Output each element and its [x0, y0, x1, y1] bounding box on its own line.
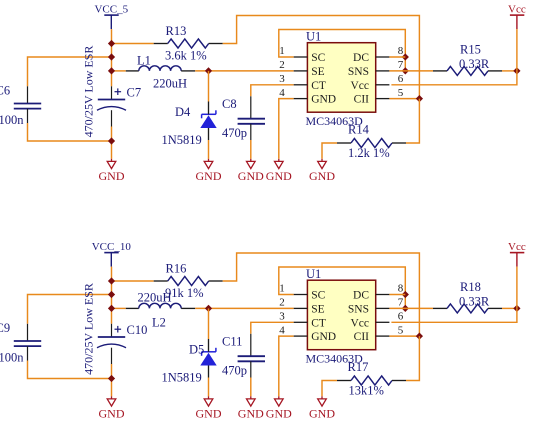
junction pin 5 CII [416, 95, 423, 102]
svg-text:4: 4 [279, 324, 285, 336]
wire VCC_10 vertical to C10 [111, 267, 113, 324]
wire VCC_5 vertical to C7 [111, 29, 113, 86]
junction L1/D4 [205, 67, 212, 74]
wire VCC_10 node to C9 top [28, 295, 112, 324]
junction pin 7 SNS [402, 67, 409, 74]
svg-text:2: 2 [279, 59, 285, 71]
resistor R15 [433, 66, 502, 75]
svg-text:4: 4 [279, 87, 285, 99]
svg-text:C10: C10 [127, 323, 148, 337]
svg-text:1N5819: 1N5819 [162, 133, 202, 147]
power port VCC_5 [94, 4, 128, 30]
wire pin 6 Vcc [391, 308, 517, 322]
resistor R14 [337, 139, 406, 148]
capacitor C7 bottom lead [111, 110, 113, 126]
svg-text:GND: GND [238, 169, 264, 183]
wire R18 right to Vcc [502, 307, 517, 309]
junction L2/D5 [205, 305, 212, 312]
svg-text:GND: GND [266, 407, 292, 421]
capacitor C8 bottom lead [250, 124, 252, 140]
svg-text:GND: GND [196, 407, 222, 421]
svg-text:R14: R14 [348, 123, 370, 137]
junction pin 8 DC [402, 291, 409, 298]
capacitor C10 (electrolytic) [97, 326, 126, 348]
resistor R16 [154, 277, 223, 286]
power port Vcc (output) [508, 4, 526, 30]
svg-text:SC: SC [311, 290, 325, 302]
resistor R18 [433, 304, 502, 313]
svg-text:470/25V Low ESR: 470/25V Low ESR [82, 46, 96, 138]
power port Vcc (output) [508, 241, 526, 267]
ground below D5 [196, 396, 222, 420]
svg-text:L2: L2 [152, 316, 166, 330]
junction R18/Vcc [513, 305, 520, 312]
wire R17 left to GND [322, 381, 337, 397]
wire pin 1 SC loop to pin 8 DC [279, 30, 406, 71]
svg-text:D5: D5 [189, 343, 204, 357]
wire pin 1 SC loop to pin 8 DC [279, 267, 406, 308]
svg-text:13k1%: 13k1% [349, 383, 384, 397]
svg-text:6: 6 [398, 73, 404, 85]
svg-text:6: 6 [398, 311, 404, 323]
svg-text:VCC_10: VCC_10 [92, 241, 132, 253]
svg-text:5: 5 [398, 324, 404, 336]
svg-text:3: 3 [279, 311, 285, 323]
wire R15 right to Vcc [502, 70, 517, 72]
junction GND rail C9/C10 [108, 375, 115, 382]
wire Vcc down [516, 29, 518, 71]
svg-text:SNS: SNS [348, 66, 369, 78]
svg-text:470p: 470p [222, 126, 247, 140]
svg-text:DC: DC [353, 290, 369, 302]
svg-text:C11: C11 [222, 335, 242, 349]
svg-text:VCC_5: VCC_5 [94, 4, 128, 16]
svg-text:U1: U1 [306, 29, 321, 43]
wire R16 right to top rail [223, 253, 420, 336]
svg-text:CII: CII [354, 331, 370, 343]
resistor R17 [337, 376, 406, 385]
svg-text:SE: SE [311, 304, 324, 316]
svg-text:R18: R18 [460, 280, 481, 294]
wire C9 bottom to GND rail [28, 361, 112, 379]
resistor R13 [154, 39, 223, 48]
svg-text:D4: D4 [175, 105, 191, 119]
svg-text:C7: C7 [127, 86, 142, 100]
wire D4 anode to GND [208, 140, 210, 159]
wire pin 3 CT to C11 [251, 322, 294, 334]
svg-text:8: 8 [398, 283, 404, 295]
op-amp/regulator IC U1 (MC34063D) [279, 43, 404, 113]
capacitor C7 (electrolytic) [97, 88, 126, 110]
svg-text:GND: GND [311, 94, 336, 106]
capacitor C11 top lead [250, 334, 252, 356]
svg-text:C9: C9 [0, 321, 10, 335]
ground below C8 [238, 159, 264, 183]
svg-text:CT: CT [311, 317, 326, 329]
wire L1 to pin 2 SE [195, 70, 294, 72]
svg-text:GND: GND [196, 169, 222, 183]
svg-text:0.33R: 0.33R [459, 57, 490, 71]
svg-text:100n: 100n [0, 351, 24, 365]
svg-text:Vcc: Vcc [508, 241, 526, 253]
svg-text:3: 3 [279, 73, 285, 85]
wire C7 bottom to GND [111, 127, 113, 159]
svg-text:7: 7 [398, 297, 404, 309]
svg-text:0.33R: 0.33R [459, 295, 490, 309]
wire R14 right up to pin 5 [406, 99, 419, 143]
svg-text:Vcc: Vcc [508, 4, 526, 16]
wire pin 4 GND [279, 336, 294, 396]
svg-text:GND: GND [99, 407, 125, 421]
junction VCC_10/C9 [108, 291, 115, 298]
wire pin 8 to junction [389, 294, 405, 296]
capacitor C10 top lead [111, 324, 113, 337]
junction R15/Vcc [513, 67, 520, 74]
svg-text:R16: R16 [166, 262, 187, 276]
capacitor C8 top lead [250, 96, 252, 118]
wire pin 3 CT to C8 [251, 85, 294, 97]
capacitor C11 [238, 356, 265, 361]
junction GND rail C6/C7 [108, 137, 115, 144]
junction VCC_5/L1 [108, 67, 115, 74]
wire VCC_10 node to L2 left [112, 307, 126, 309]
wire C8 to GND [250, 140, 252, 159]
junction VCC_10/R16 [108, 277, 115, 284]
svg-text:C8: C8 [222, 97, 237, 111]
svg-text:CT: CT [311, 80, 326, 92]
junction VCC_5/C6 [108, 53, 115, 60]
svg-text:7: 7 [398, 59, 404, 71]
capacitor C11 bottom lead [250, 361, 252, 377]
ground below C11 [238, 396, 264, 420]
capacitor C9 top lead [27, 324, 29, 341]
svg-text:SE: SE [311, 66, 324, 78]
svg-text:GND: GND [99, 169, 125, 183]
svg-text:R13: R13 [166, 24, 187, 38]
svg-text:SNS: SNS [348, 304, 369, 316]
inductor L2 [126, 303, 195, 308]
svg-text:470/25V Low ESR: 470/25V Low ESR [82, 283, 96, 375]
wire pin 7 SNS to R18 [389, 307, 433, 309]
ground below R17 [309, 396, 335, 420]
wire VCC_5 node to C6 top [28, 57, 112, 86]
diode D5 [200, 339, 216, 378]
ground below R14 [309, 159, 335, 183]
capacitor C9 [14, 341, 41, 346]
svg-text:GND: GND [311, 331, 336, 343]
capacitor C6 top lead [27, 86, 29, 103]
wire D4 cathode [208, 71, 210, 102]
capacitor C9 bottom lead [27, 346, 29, 360]
junction pin 5 CII [416, 333, 423, 340]
wire pin 5 CII [389, 335, 419, 337]
svg-text:GND: GND [266, 169, 292, 183]
svg-text:L1: L1 [137, 54, 151, 68]
inductor L1 [126, 66, 195, 71]
svg-text:5: 5 [398, 87, 404, 99]
svg-text:1: 1 [279, 283, 285, 295]
svg-text:R15: R15 [460, 43, 481, 57]
ground below D4 [196, 159, 222, 183]
svg-text:C6: C6 [0, 84, 10, 98]
capacitor C8 [238, 119, 265, 124]
svg-text:SC: SC [311, 52, 325, 64]
wire C10 bottom to GND [111, 364, 113, 396]
wire Vcc down [516, 267, 518, 309]
svg-text:GND: GND [309, 169, 335, 183]
svg-text:8: 8 [398, 45, 404, 57]
capacitor C6 bottom lead [27, 109, 29, 123]
svg-text:GND: GND [238, 407, 264, 421]
ground below C7 [99, 159, 125, 183]
svg-text:3.6k 1%: 3.6k 1% [165, 48, 207, 62]
svg-text:U1: U1 [306, 267, 321, 281]
svg-text:1: 1 [279, 45, 285, 57]
junction VCC_5/R13 [108, 40, 115, 47]
svg-text:GND: GND [309, 407, 335, 421]
svg-text:1.2k 1%: 1.2k 1% [348, 146, 390, 160]
svg-text:Vcc: Vcc [350, 80, 369, 92]
svg-text:Vcc: Vcc [350, 317, 369, 329]
ground below pin 4 [266, 396, 292, 420]
wire D5 anode to GND [208, 378, 210, 397]
wire pin 4 GND [279, 99, 294, 159]
op-amp/regulator IC U1 (MC34063D) [279, 280, 404, 350]
svg-text:100n: 100n [0, 113, 24, 127]
wire C11 to GND [250, 378, 252, 397]
svg-text:CII: CII [354, 94, 370, 106]
ground below C10 [99, 396, 125, 420]
wire VCC_5 node to R13 left [112, 43, 154, 45]
wire VCC_10 node to R16 left [112, 280, 154, 282]
diode D4 [200, 102, 216, 141]
capacitor C7 top lead [111, 86, 113, 99]
junction pin 7 SNS [402, 305, 409, 312]
junction pin 8 DC [402, 53, 409, 60]
junction VCC_10/L2 [108, 305, 115, 312]
wire C6 bottom to GND rail [28, 123, 112, 141]
capacitor C6 [14, 104, 41, 109]
wire VCC_5 node to L1 left [112, 70, 126, 72]
capacitor C10 bottom lead [111, 348, 113, 364]
svg-text:470p: 470p [222, 363, 247, 377]
svg-text:DC: DC [353, 52, 369, 64]
wire pin 8 to junction [389, 56, 405, 58]
wire R14 left to GND [322, 143, 337, 159]
svg-text:1N5819: 1N5819 [162, 371, 202, 385]
power port VCC_10 [92, 241, 132, 267]
svg-text:R17: R17 [348, 360, 369, 374]
wire R13 right to top rail [223, 16, 420, 99]
wire pin 6 Vcc [391, 71, 517, 85]
svg-text:2: 2 [279, 297, 285, 309]
svg-text:220uH: 220uH [153, 77, 187, 91]
wire pin 7 SNS to R15 [389, 70, 433, 72]
wire R17 right up to pin 5 [406, 336, 419, 380]
svg-text:220uH: 220uH [138, 291, 172, 305]
ground below pin 4 [266, 159, 292, 183]
wire D5 cathode [208, 308, 210, 339]
wire L2 to pin 2 SE [195, 307, 294, 309]
wire pin 5 CII [389, 98, 419, 100]
